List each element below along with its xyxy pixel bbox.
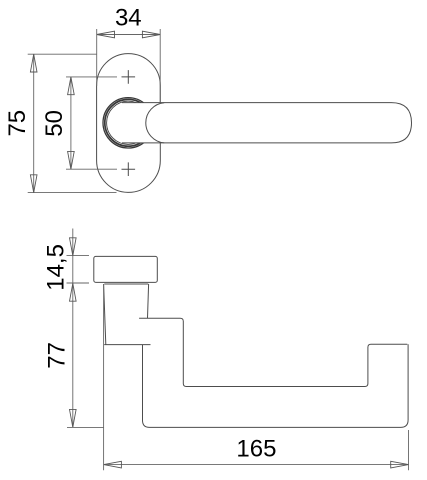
dim 165: extension line right <box>408 430 410 470</box>
dim 75: arrow down <box>30 175 37 193</box>
bend inner step (upper) <box>139 318 407 386</box>
dim 165: arrow right <box>391 461 409 468</box>
screw mark bottom (cross) <box>122 162 136 176</box>
dim 50: arrow down <box>68 151 75 169</box>
svg-text:50: 50 <box>41 110 68 137</box>
dim 75: dimension line <box>33 54 35 192</box>
neck left edge <box>104 284 106 345</box>
dim 14,5/77: arrow pointing up at door face <box>70 283 77 301</box>
lever bend arc (neck silhouette) <box>146 103 164 143</box>
collar inner circle <box>107 101 150 144</box>
dim 34: dimension line <box>97 34 161 36</box>
collar middle circle <box>105 99 152 146</box>
svg-text:34: 34 <box>115 5 142 32</box>
rosette (plan view, rounded rect) <box>94 256 158 282</box>
collar outer circle <box>103 98 153 148</box>
grip outer contour with end return <box>143 344 409 427</box>
dim 50: arrow up <box>68 77 75 95</box>
dim 34: arrow left <box>97 31 115 38</box>
svg-text:77: 77 <box>44 342 71 369</box>
svg-text:165: 165 <box>236 436 276 463</box>
dim 34: extension line right <box>159 29 161 102</box>
dim 75: extension line bottom <box>28 192 117 194</box>
dim 50: extension line bottom <box>66 168 117 170</box>
dim 165: arrow left <box>104 461 122 468</box>
lever grip bar (front view) fill mask <box>122 103 412 143</box>
dim 77: arrow pointing down at grip outer edge <box>70 409 77 427</box>
neck lower step (outer) <box>104 344 150 346</box>
lever grip bar edges and right end cap <box>122 103 412 143</box>
dim 75: arrow up <box>30 54 37 72</box>
dim 14,5 / 77: common dimension line <box>72 229 74 428</box>
dim 77: extension line bottom (grip outer edge extended) <box>67 426 104 428</box>
dim 50: extension line top <box>66 76 117 78</box>
neck right edge <box>148 284 149 318</box>
dim 14,5: outside arrow above pointing down <box>70 238 77 256</box>
dim 14,5: extension line bottom (door face) <box>67 282 90 284</box>
svg-text:14,5: 14,5 <box>42 244 69 291</box>
dim 75: extension line top <box>28 53 97 55</box>
dim 165: extension line left <box>103 284 105 470</box>
rosette oval (front view) <box>97 54 161 193</box>
neck top edge (plan view) <box>104 283 148 285</box>
dim 165: dimension line <box>104 464 409 466</box>
dim 34: arrow right <box>142 31 160 38</box>
screw mark top (cross) <box>122 70 136 84</box>
dim 50: dimension line <box>70 77 72 169</box>
dim 14,5: extension line top <box>67 255 90 257</box>
dim 34: extension line left <box>96 29 98 86</box>
svg-text:75: 75 <box>4 110 31 137</box>
